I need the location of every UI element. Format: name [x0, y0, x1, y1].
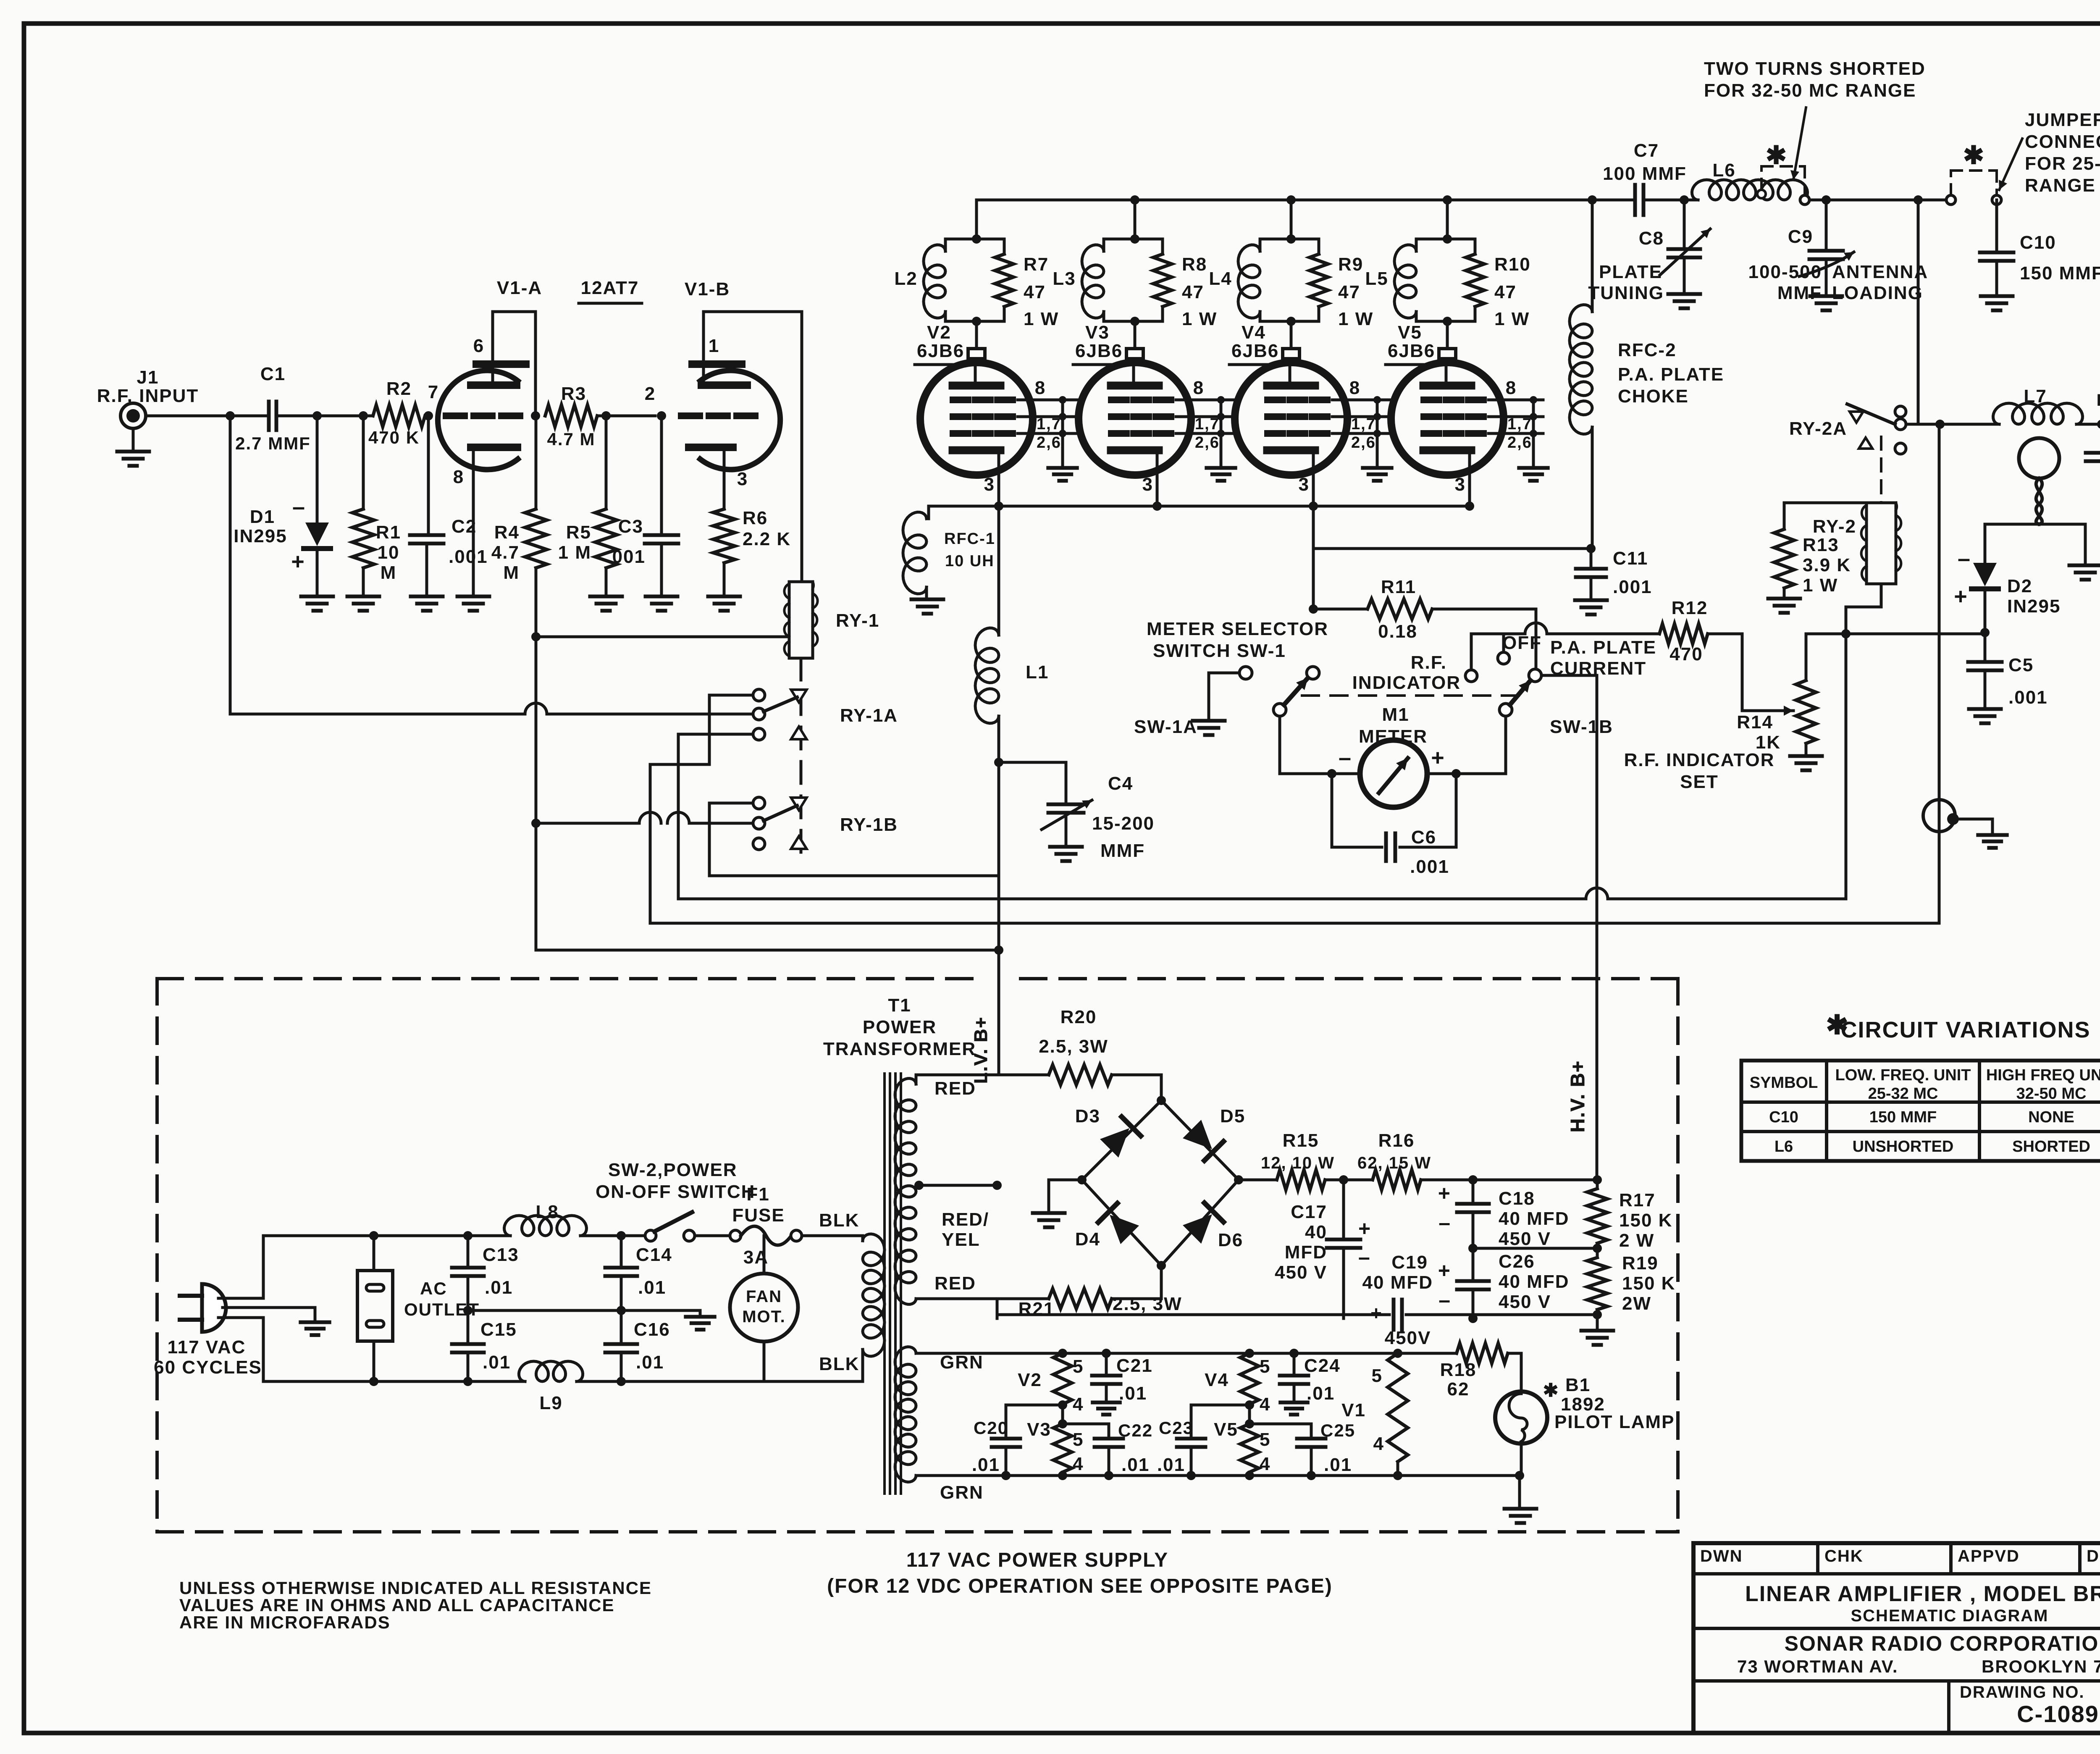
svg-text:MMF: MMF — [1777, 283, 1822, 303]
svg-text:FUSE: FUSE — [732, 1205, 785, 1226]
svg-text:150 K: 150 K — [1622, 1273, 1675, 1294]
svg-text:2,6: 2,6 — [1351, 434, 1376, 452]
svg-text:APPVD: APPVD — [1958, 1547, 2020, 1565]
svg-text:1 W: 1 W — [1494, 309, 1530, 329]
svg-text:.01: .01 — [1324, 1455, 1352, 1475]
svg-text:40: 40 — [1305, 1222, 1327, 1242]
svg-text:V3: V3 — [1027, 1419, 1051, 1440]
svg-text:C5: C5 — [2008, 655, 2034, 675]
svg-text:117 VAC: 117 VAC — [168, 1337, 246, 1358]
svg-text:47: 47 — [1182, 282, 1204, 302]
svg-text:C23: C23 — [1159, 1418, 1194, 1438]
svg-text:–: – — [1415, 1302, 1426, 1324]
svg-text:TRANSFORMER: TRANSFORMER — [823, 1039, 976, 1059]
svg-text:FOR 32-50 MC RANGE: FOR 32-50 MC RANGE — [1704, 80, 1916, 101]
svg-text:+: + — [1438, 1259, 1451, 1282]
svg-text:450V: 450V — [1385, 1328, 1431, 1348]
svg-text:DRAWING NO.: DRAWING NO. — [1960, 1683, 2085, 1701]
svg-text:C8: C8 — [1639, 228, 1664, 249]
svg-text:BROOKLYN 7 , N.Y: BROOKLYN 7 , N.Y — [1982, 1657, 2100, 1676]
svg-text:TWO TURNS SHORTED: TWO TURNS SHORTED — [1704, 58, 1926, 79]
svg-text:D2: D2 — [2007, 576, 2032, 596]
svg-text:47: 47 — [1024, 282, 1046, 302]
svg-text:5: 5 — [1073, 1429, 1084, 1450]
svg-text:C10: C10 — [1769, 1108, 1798, 1126]
svg-text:3: 3 — [984, 474, 995, 495]
svg-text:3.9 K: 3.9 K — [1803, 555, 1851, 575]
svg-text:32-50 MC: 32-50 MC — [2016, 1085, 2087, 1103]
svg-text:GRN: GRN — [940, 1482, 984, 1503]
svg-text:C4: C4 — [1108, 773, 1133, 794]
svg-text:IN295: IN295 — [234, 526, 287, 546]
svg-text:3: 3 — [737, 469, 748, 489]
svg-text:3: 3 — [1142, 474, 1153, 495]
svg-text:6JB6: 6JB6 — [1231, 341, 1279, 361]
svg-text:P.A. PLATE: P.A. PLATE — [1618, 364, 1724, 385]
svg-text:ARE IN MICROFARADS: ARE IN MICROFARADS — [179, 1612, 391, 1632]
svg-text:450 V: 450 V — [1499, 1292, 1551, 1312]
svg-text:RANGE: RANGE — [2025, 175, 2096, 196]
svg-text:H.V. B+: H.V. B+ — [1567, 1060, 1588, 1132]
svg-text:2.5, 3W: 2.5, 3W — [1039, 1036, 1108, 1057]
svg-text:LINEAR AMPLIFIER , MODEL BR: LINEAR AMPLIFIER , MODEL BR - 21 — [1745, 1582, 2100, 1606]
svg-text:C7: C7 — [1634, 140, 1659, 161]
svg-text:40 MFD: 40 MFD — [1499, 1271, 1569, 1292]
svg-text:100 MMF: 100 MMF — [1603, 163, 1687, 184]
svg-text:12AT7: 12AT7 — [581, 278, 639, 298]
svg-text:V3: V3 — [1085, 322, 1110, 343]
svg-text:.01: .01 — [1119, 1383, 1147, 1404]
svg-text:+: + — [1358, 1217, 1371, 1240]
svg-text:15-200: 15-200 — [1092, 813, 1155, 834]
svg-text:.01: .01 — [1157, 1455, 1185, 1475]
svg-text:4: 4 — [1073, 1394, 1084, 1415]
svg-text:L4: L4 — [1209, 268, 1232, 289]
svg-text:40 MFD: 40 MFD — [1362, 1272, 1433, 1293]
svg-text:BLK: BLK — [819, 1354, 859, 1374]
svg-text:ON-OFF SWITCH: ON-OFF SWITCH — [596, 1182, 755, 1202]
svg-text:12, 10 W: 12, 10 W — [1261, 1154, 1335, 1172]
svg-text:TUNING: TUNING — [1588, 283, 1664, 303]
svg-text:7: 7 — [428, 382, 439, 402]
svg-text:L1: L1 — [1026, 662, 1049, 683]
svg-text:C10: C10 — [2020, 232, 2056, 253]
svg-text:150 MMF: 150 MMF — [2020, 263, 2100, 284]
svg-text:V2: V2 — [927, 322, 951, 343]
svg-text:ANTENNA: ANTENNA — [1832, 262, 1928, 282]
svg-text:SWITCH SW-1: SWITCH SW-1 — [1153, 641, 1286, 661]
svg-text:RY-2A: RY-2A — [1789, 418, 1847, 439]
svg-text:1 W: 1 W — [1803, 575, 1838, 596]
svg-text:RFC-1: RFC-1 — [944, 530, 995, 548]
svg-text:C21: C21 — [1116, 1355, 1153, 1376]
svg-text:V5: V5 — [1214, 1419, 1238, 1440]
svg-text:47: 47 — [1338, 282, 1360, 302]
svg-text:YEL: YEL — [942, 1229, 980, 1250]
svg-text:73 WORTMAN AV.: 73 WORTMAN AV. — [1737, 1657, 1898, 1676]
svg-text:C14: C14 — [636, 1245, 672, 1265]
svg-text:T1: T1 — [888, 995, 911, 1016]
svg-text:C26: C26 — [1499, 1251, 1535, 1272]
svg-text:1,7: 1,7 — [1507, 415, 1532, 433]
svg-text:HIGH FREQ UNIT: HIGH FREQ UNIT — [1986, 1066, 2100, 1084]
svg-text:R12: R12 — [1672, 598, 1708, 618]
svg-text:R21: R21 — [1018, 1299, 1055, 1319]
svg-text:L9: L9 — [539, 1393, 562, 1413]
svg-text:METER: METER — [1359, 726, 1428, 747]
svg-text:LOADING: LOADING — [1832, 283, 1923, 303]
svg-text:SONAR RADIO CORPORATION: SONAR RADIO CORPORATION — [1785, 1632, 2100, 1655]
svg-text:.001: .001 — [2008, 687, 2048, 708]
svg-text:C-1089: C-1089 — [2017, 1701, 2099, 1727]
svg-text:R6: R6 — [743, 508, 768, 528]
svg-text:60 CYCLES: 60 CYCLES — [154, 1357, 262, 1378]
svg-text:MOT.: MOT. — [742, 1308, 786, 1326]
svg-text:8: 8 — [453, 467, 464, 487]
svg-text:UNSHORTED: UNSHORTED — [1853, 1138, 1954, 1155]
svg-text:C11: C11 — [1613, 548, 1648, 569]
svg-text:DWN: DWN — [1700, 1547, 1743, 1565]
svg-text:–: – — [1438, 1211, 1451, 1234]
svg-text:R16: R16 — [1378, 1130, 1415, 1151]
svg-text:25-32 MC: 25-32 MC — [1868, 1085, 1938, 1103]
svg-text:.01: .01 — [972, 1455, 1000, 1475]
svg-text:FAN: FAN — [746, 1287, 782, 1306]
svg-text:10: 10 — [378, 542, 400, 563]
svg-text:1 M: 1 M — [558, 542, 591, 563]
svg-text:1,7: 1,7 — [1037, 415, 1061, 433]
svg-text:+: + — [291, 549, 305, 574]
svg-text:CONNECTED: CONNECTED — [2025, 131, 2100, 152]
svg-text:C9: C9 — [1788, 226, 1813, 247]
svg-text:M: M — [503, 562, 520, 583]
svg-text:CHOKE: CHOKE — [1618, 386, 1689, 407]
svg-text:SET: SET — [1680, 772, 1719, 792]
svg-text:IN295: IN295 — [2007, 596, 2061, 617]
svg-text:C6: C6 — [1411, 827, 1436, 848]
svg-text:40 MFD: 40 MFD — [1499, 1208, 1569, 1229]
svg-text:C13: C13 — [483, 1245, 519, 1265]
svg-text:✱: ✱ — [1963, 141, 1985, 169]
svg-text:RED/: RED/ — [942, 1209, 989, 1230]
svg-text:4: 4 — [1260, 1394, 1270, 1415]
svg-text:.001: .001 — [606, 546, 646, 567]
svg-text:L3: L3 — [1053, 268, 1076, 289]
svg-text:R2: R2 — [386, 378, 412, 399]
svg-text:6: 6 — [473, 336, 484, 356]
svg-text:5: 5 — [1260, 1356, 1270, 1377]
svg-text:RY-2: RY-2 — [1813, 516, 1856, 537]
svg-text:V2: V2 — [1018, 1370, 1042, 1390]
svg-text:RED: RED — [934, 1273, 976, 1294]
svg-text:MFD: MFD — [1285, 1242, 1327, 1263]
svg-text:C22: C22 — [1118, 1421, 1153, 1440]
svg-text:–: – — [1438, 1288, 1451, 1312]
svg-text:4: 4 — [1373, 1434, 1384, 1454]
svg-text:V1: V1 — [1341, 1400, 1366, 1421]
svg-text:SCHEMATIC DIAGRAM: SCHEMATIC DIAGRAM — [1851, 1607, 2048, 1625]
svg-text:6JB6: 6JB6 — [1075, 341, 1123, 361]
svg-text:R14: R14 — [1737, 712, 1773, 733]
svg-text:SYMBOL: SYMBOL — [1750, 1074, 1818, 1092]
svg-text:M1: M1 — [1382, 704, 1409, 725]
svg-text:.01: .01 — [636, 1352, 664, 1373]
svg-text:R5: R5 — [566, 522, 591, 543]
svg-text:2.5, 3W: 2.5, 3W — [1113, 1294, 1182, 1314]
svg-text:C15: C15 — [480, 1319, 517, 1340]
svg-text:–: – — [1358, 1245, 1371, 1269]
svg-text:1 W: 1 W — [1338, 309, 1373, 329]
svg-text:1: 1 — [709, 336, 719, 356]
svg-text:RY-1: RY-1 — [836, 610, 879, 631]
svg-text:R11: R11 — [1381, 577, 1416, 597]
svg-text:117 VAC POWER SUPPLY: 117 VAC POWER SUPPLY — [906, 1549, 1168, 1571]
svg-text:.01: .01 — [638, 1277, 666, 1298]
svg-text:8: 8 — [1193, 378, 1204, 398]
svg-text:2,6: 2,6 — [1037, 434, 1061, 452]
svg-text:L8: L8 — [535, 1202, 559, 1222]
svg-text:+: + — [1431, 745, 1445, 770]
svg-text:D1: D1 — [250, 507, 275, 527]
svg-text:✱: ✱ — [1543, 1380, 1559, 1401]
svg-text:(FOR 12 VDC OPERATION SEE OPPO: (FOR 12 VDC OPERATION SEE OPPOSITE PAGE) — [827, 1575, 1333, 1597]
svg-text:C24: C24 — [1304, 1355, 1341, 1376]
svg-text:CHK: CHK — [1824, 1547, 1864, 1565]
svg-text:R1: R1 — [376, 522, 401, 543]
svg-text:C3: C3 — [618, 516, 643, 537]
svg-text:METER SELECTOR: METER SELECTOR — [1147, 619, 1328, 639]
svg-text:R4: R4 — [494, 522, 520, 543]
svg-text:PILOT LAMP: PILOT LAMP — [1554, 1412, 1675, 1432]
svg-text:62: 62 — [1447, 1379, 1470, 1400]
svg-text:L5: L5 — [1365, 268, 1388, 289]
svg-text:1,7: 1,7 — [1351, 415, 1376, 433]
svg-text:150 K: 150 K — [1619, 1210, 1672, 1231]
svg-text:R19: R19 — [1622, 1253, 1659, 1273]
svg-text:R9: R9 — [1338, 254, 1363, 275]
svg-text:✱: ✱ — [1766, 141, 1788, 169]
svg-text:C1: C1 — [260, 364, 286, 384]
svg-text:SW-2,POWER: SW-2,POWER — [608, 1160, 738, 1180]
svg-text:0.18: 0.18 — [1378, 621, 1417, 642]
svg-text:47: 47 — [1494, 282, 1517, 302]
svg-text:C17: C17 — [1291, 1202, 1327, 1222]
svg-text:UNLESS OTHERWISE INDICATED AL: UNLESS OTHERWISE INDICATED ALL RESISTANC… — [179, 1578, 652, 1598]
svg-text:J1: J1 — [137, 367, 159, 388]
svg-text:L6: L6 — [1712, 160, 1735, 181]
svg-text:4.7 M: 4.7 M — [547, 429, 595, 449]
svg-text:V5: V5 — [1398, 322, 1422, 343]
svg-text:1 W: 1 W — [1182, 309, 1217, 329]
svg-text:M: M — [381, 562, 397, 583]
svg-text:.001: .001 — [1613, 577, 1652, 597]
svg-text:PLATE: PLATE — [1599, 262, 1662, 282]
svg-text:8: 8 — [1349, 378, 1360, 398]
svg-text:.01: .01 — [485, 1277, 513, 1298]
svg-text:R17: R17 — [1619, 1190, 1656, 1210]
svg-text:100-500: 100-500 — [1748, 262, 1822, 282]
svg-text:+: + — [1370, 1302, 1383, 1324]
svg-text:D4: D4 — [1075, 1229, 1100, 1250]
svg-text:B1: B1 — [1565, 1375, 1591, 1395]
svg-text:4: 4 — [1260, 1454, 1270, 1474]
svg-text:.001: .001 — [1410, 856, 1449, 877]
svg-text:VALUES ARE IN OHMS AND ALL CAP: VALUES ARE IN OHMS AND ALL CAPACITANCE — [179, 1595, 615, 1615]
svg-text:V1-A: V1-A — [497, 278, 542, 298]
svg-text:R.F.: R.F. — [1411, 652, 1447, 673]
svg-text:V4: V4 — [1242, 322, 1266, 343]
svg-text:RFC-2: RFC-2 — [1618, 340, 1677, 360]
svg-text:SHORTED: SHORTED — [2012, 1138, 2090, 1155]
svg-text:SW-1B: SW-1B — [1550, 717, 1613, 737]
svg-text:C16: C16 — [634, 1319, 670, 1340]
svg-text:D3: D3 — [1075, 1106, 1100, 1126]
svg-text:2: 2 — [645, 383, 656, 404]
svg-text:4: 4 — [1073, 1454, 1084, 1474]
svg-text:.01: .01 — [483, 1352, 511, 1373]
svg-text:C20: C20 — [974, 1418, 1008, 1438]
svg-text:2,6: 2,6 — [1507, 434, 1532, 452]
svg-text:.01: .01 — [1307, 1383, 1335, 1404]
svg-text:F1: F1 — [746, 1184, 769, 1205]
svg-text:R13: R13 — [1803, 535, 1839, 555]
svg-text:2 W: 2 W — [1619, 1230, 1654, 1251]
svg-text:3: 3 — [1299, 474, 1310, 495]
svg-text:6JB6: 6JB6 — [1388, 341, 1435, 361]
svg-text:–: – — [1339, 745, 1352, 770]
svg-text:.001: .001 — [449, 546, 488, 567]
svg-text:AC: AC — [420, 1279, 447, 1298]
svg-text:L7: L7 — [2024, 386, 2047, 407]
svg-text:R18: R18 — [1440, 1360, 1477, 1380]
svg-text:LOW. FREQ. UNIT: LOW. FREQ. UNIT — [1835, 1066, 1971, 1084]
svg-text:RY-1A: RY-1A — [840, 705, 898, 726]
svg-text:RED: RED — [934, 1078, 976, 1099]
svg-text:4.7: 4.7 — [491, 542, 520, 563]
svg-text:C25: C25 — [1320, 1421, 1355, 1440]
svg-text:470: 470 — [1669, 644, 1703, 664]
svg-text:–: – — [1958, 546, 1971, 571]
svg-text:NONE: NONE — [2028, 1108, 2074, 1126]
svg-text:V1-B: V1-B — [685, 279, 730, 299]
svg-text:10 UH: 10 UH — [945, 552, 995, 570]
svg-text:D6: D6 — [1218, 1230, 1243, 1250]
svg-text:8: 8 — [1035, 378, 1046, 398]
svg-text:INDICATOR: INDICATOR — [1352, 672, 1461, 693]
svg-text:JUMPER: JUMPER — [2025, 110, 2100, 130]
svg-text:C19: C19 — [1391, 1252, 1428, 1273]
svg-text:150 MMF: 150 MMF — [1869, 1108, 1937, 1126]
svg-text:DATE: DATE — [2087, 1547, 2100, 1565]
svg-text:SW-1A: SW-1A — [1134, 717, 1197, 737]
svg-text:5: 5 — [1073, 1356, 1084, 1377]
svg-text:OFF: OFF — [1502, 633, 1542, 653]
svg-text:2.2 K: 2.2 K — [743, 529, 791, 549]
svg-text:GRN: GRN — [940, 1352, 984, 1373]
svg-text:MMF: MMF — [1100, 840, 1145, 861]
svg-text:5: 5 — [1260, 1429, 1270, 1450]
svg-text:R3: R3 — [561, 383, 586, 404]
svg-text:FOR 25-32 MC: FOR 25-32 MC — [2025, 153, 2100, 174]
svg-text:450 V: 450 V — [1499, 1229, 1551, 1249]
svg-text:6JB6: 6JB6 — [917, 341, 964, 361]
svg-text:CIRCUIT VARIATIONS: CIRCUIT VARIATIONS — [1841, 1017, 2091, 1042]
svg-text:RY-1B: RY-1B — [840, 814, 898, 835]
svg-text:C18: C18 — [1499, 1188, 1535, 1209]
svg-text:62, 15 W: 62, 15 W — [1357, 1154, 1431, 1172]
svg-text:R7: R7 — [1024, 254, 1049, 275]
svg-text:R.F. INPUT: R.F. INPUT — [97, 386, 199, 406]
svg-text:+: + — [1954, 584, 1968, 609]
svg-text:R15: R15 — [1283, 1130, 1319, 1151]
svg-text:BLK: BLK — [819, 1210, 859, 1231]
svg-text:R20: R20 — [1060, 1007, 1097, 1027]
svg-text:3: 3 — [1455, 474, 1466, 495]
svg-text:R10: R10 — [1494, 254, 1531, 275]
svg-text:P.A. PLATE: P.A. PLATE — [1550, 637, 1656, 658]
svg-text:+: + — [1438, 1182, 1451, 1205]
svg-text:450 V: 450 V — [1275, 1262, 1327, 1283]
svg-text:D5: D5 — [1220, 1106, 1245, 1126]
svg-text:2,6: 2,6 — [1195, 434, 1220, 452]
svg-text:2.7 MMF: 2.7 MMF — [235, 433, 311, 453]
svg-text:L2: L2 — [894, 268, 917, 289]
svg-text:1,7: 1,7 — [1195, 415, 1220, 433]
svg-text:POWER: POWER — [863, 1017, 937, 1037]
svg-text:470 K: 470 K — [368, 428, 420, 447]
svg-text:1 W: 1 W — [1024, 309, 1059, 329]
svg-text:5: 5 — [1372, 1365, 1383, 1386]
svg-text:R.F. INDICATOR: R.F. INDICATOR — [1624, 750, 1775, 770]
svg-text:8: 8 — [1506, 378, 1517, 398]
svg-text:R8: R8 — [1182, 254, 1207, 275]
svg-text:R.F. OUTPUT: R.F. OUTPUT — [2097, 391, 2100, 410]
svg-text:.01: .01 — [1121, 1455, 1150, 1475]
svg-text:2W: 2W — [1622, 1293, 1651, 1314]
svg-text:L6: L6 — [1774, 1138, 1793, 1155]
svg-text:V4: V4 — [1205, 1370, 1229, 1390]
svg-text:–: – — [292, 494, 306, 520]
